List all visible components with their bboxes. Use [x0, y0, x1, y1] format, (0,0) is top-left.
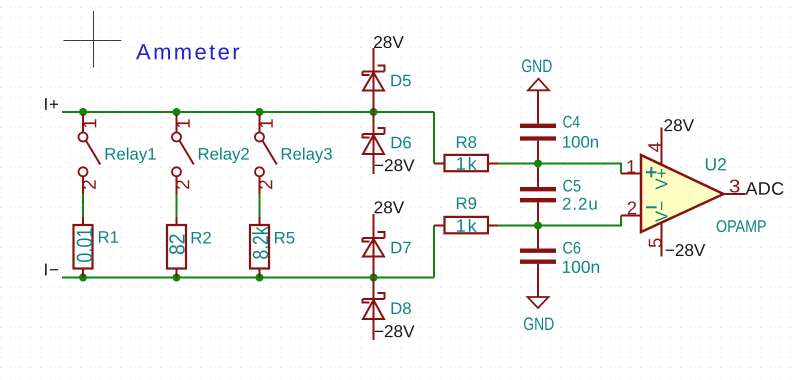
svg-text:2.2u: 2.2u: [562, 195, 599, 214]
svg-text:0.01: 0.01: [72, 228, 96, 263]
svg-text:28V: 28V: [664, 115, 695, 135]
svg-text:C6: C6: [562, 239, 581, 258]
svg-text:8.2k: 8.2k: [248, 226, 272, 260]
svg-text:3: 3: [729, 175, 741, 196]
svg-text:1: 1: [80, 118, 101, 129]
svg-text:OPAMP: OPAMP: [716, 217, 767, 236]
svg-text:D8: D8: [390, 299, 411, 318]
svg-text:2: 2: [173, 179, 194, 190]
svg-text:D7: D7: [390, 238, 411, 257]
svg-text:I+: I+: [44, 95, 60, 114]
svg-text:2: 2: [256, 179, 277, 190]
svg-text:82: 82: [165, 234, 189, 256]
svg-text:5: 5: [644, 238, 665, 248]
svg-text:4: 4: [644, 142, 665, 152]
svg-text:100n: 100n: [562, 133, 599, 152]
svg-text:−28V: −28V: [374, 321, 415, 341]
svg-text:1: 1: [626, 156, 636, 177]
svg-text:I−: I−: [43, 260, 59, 279]
svg-text:ADC: ADC: [745, 179, 784, 199]
svg-text:1k: 1k: [456, 216, 479, 236]
svg-text:−28V: −28V: [665, 240, 706, 260]
svg-text:2: 2: [627, 197, 637, 218]
svg-text:R9: R9: [455, 194, 476, 213]
svg-text:GND: GND: [521, 56, 552, 76]
svg-text:GND: GND: [523, 314, 554, 334]
svg-text:R2: R2: [190, 228, 211, 247]
svg-text:Relay2: Relay2: [198, 145, 250, 164]
svg-text:1: 1: [257, 118, 278, 129]
svg-text:28V: 28V: [373, 32, 404, 52]
svg-text:1k: 1k: [456, 154, 479, 174]
svg-text:1: 1: [174, 118, 195, 129]
svg-text:C4: C4: [563, 113, 581, 132]
svg-text:100n: 100n: [561, 257, 600, 277]
svg-text:−28V: −28V: [374, 155, 415, 175]
svg-text:D5: D5: [390, 71, 411, 90]
svg-text:Relay1: Relay1: [104, 145, 156, 164]
svg-text:R8: R8: [456, 133, 477, 152]
svg-text:R1: R1: [97, 228, 118, 247]
svg-text:C5: C5: [562, 176, 581, 195]
svg-text:U2: U2: [705, 154, 727, 174]
svg-text:V−: V−: [652, 201, 671, 222]
svg-text:28V: 28V: [374, 197, 405, 217]
svg-text:D6: D6: [390, 133, 411, 152]
svg-text:Relay3: Relay3: [280, 145, 332, 164]
svg-text:Ammeter: Ammeter: [136, 39, 242, 64]
svg-text:2: 2: [80, 179, 101, 190]
svg-text:R5: R5: [274, 228, 295, 247]
